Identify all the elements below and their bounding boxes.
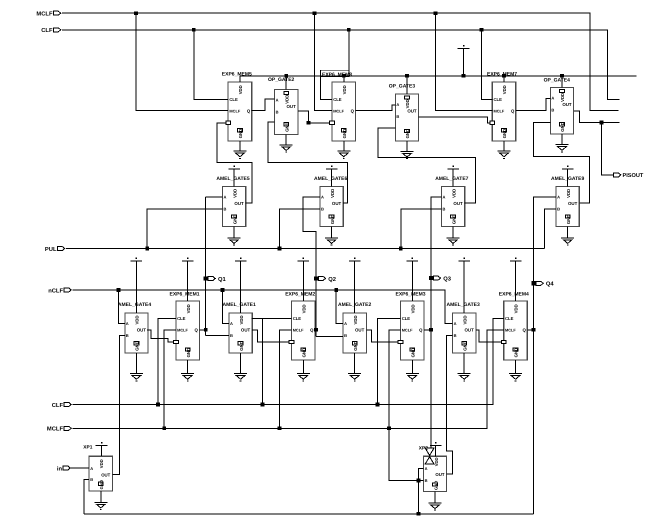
svg-text:A: A xyxy=(443,195,446,200)
svg-text:GND: GND xyxy=(342,129,347,139)
wire MEM7.Q to OP_GATE4.A xyxy=(516,99,550,111)
svg-text:MCLF: MCLF xyxy=(47,426,64,433)
flip-flop U18 EXP6_MEM4 xyxy=(499,291,529,380)
svg-text:VDD: VDD xyxy=(135,315,140,324)
svg-text:VDD: VDD xyxy=(342,85,347,94)
wire in to XP1.A xyxy=(70,467,89,469)
svg-text:MCLF: MCLF xyxy=(494,108,505,113)
svg-text:VDD: VDD xyxy=(99,459,104,468)
vdd supply of EXP6_MEM1 xyxy=(182,258,194,301)
svg-text:B: B xyxy=(224,207,227,212)
gate U7 AMEL_GATE5 xyxy=(216,176,249,245)
wire CLF top rail xyxy=(62,30,619,100)
svg-text:VDD: VDD xyxy=(284,95,289,104)
svg-text:GND: GND xyxy=(99,480,104,489)
vdd stem MEM8 xyxy=(342,74,346,82)
svg-text:B: B xyxy=(276,110,279,115)
vdd stem MEM7 xyxy=(502,74,506,82)
svg-text:CLE: CLE xyxy=(333,97,342,102)
svg-text:XP1: XP1 xyxy=(83,444,92,450)
svg-text:PISOUT: PISOUT xyxy=(623,173,644,179)
vdd tap symbol on rail xyxy=(458,45,470,78)
svg-text:MCLF: MCLF xyxy=(36,11,53,18)
svg-text:VDD: VDD xyxy=(451,189,456,198)
flip-flop U12 EXP6_MEM1 xyxy=(170,291,200,380)
vdd supply of EXP6_MEM3 xyxy=(406,258,418,301)
vdd supply of AMEL_GATE6 xyxy=(326,165,338,186)
svg-text:CLE: CLE xyxy=(177,316,186,321)
svg-text:VDD: VDD xyxy=(330,189,335,198)
wire CLF to MEM3.CLE xyxy=(376,319,401,407)
svg-text:B: B xyxy=(344,333,347,338)
svg-text:AMEL_GATE5: AMEL_GATE5 xyxy=(216,176,249,182)
svg-text:B: B xyxy=(90,477,93,482)
svg-text:VDD: VDD xyxy=(353,315,358,324)
svg-text:B: B xyxy=(551,108,554,113)
wire MCLF to MEM5.MCLF xyxy=(134,11,228,110)
svg-text:EXP6_MEM3: EXP6_MEM3 xyxy=(396,291,426,297)
svg-text:MCLF: MCLF xyxy=(402,327,413,332)
svg-text:CLF: CLF xyxy=(41,27,53,34)
wire PUL rail xyxy=(66,248,545,250)
ground of XP2 xyxy=(429,492,442,511)
svg-text:GND: GND xyxy=(462,341,467,351)
svg-text:A: A xyxy=(321,195,324,200)
svg-text:GND: GND xyxy=(560,122,565,132)
svg-text:OUT: OUT xyxy=(332,201,342,206)
svg-text:OUT: OUT xyxy=(453,201,463,206)
wire CLF distribution rail y=75.8 xyxy=(240,75,637,77)
vdd supply of AMEL_GATE7 xyxy=(447,165,459,186)
wire feedback bottom rail xyxy=(84,513,533,515)
svg-text:A: A xyxy=(126,321,129,326)
wire AMEL_GATE3.OUT to MEM4.B xyxy=(476,330,502,342)
wire CLF drop to rail xyxy=(347,28,351,76)
svg-text:Q2: Q2 xyxy=(328,276,336,283)
vdd supply of AMEL_GATE3 xyxy=(458,258,470,313)
wire MEM5.Q to OP_GATE2.A xyxy=(252,99,275,111)
svg-text:EXP6_MEM1: EXP6_MEM1 xyxy=(170,291,200,297)
vdd stem OP_GATE2 xyxy=(284,74,288,89)
wire AMEL_GATE5.B to PUL xyxy=(145,209,222,251)
wire nCLF to AMEL_GATE1.A xyxy=(221,288,230,324)
vdd supply of AMEL_GATE4 xyxy=(131,258,143,313)
svg-text:A: A xyxy=(551,96,554,101)
svg-text:A: A xyxy=(344,321,347,326)
svg-text:OUT: OUT xyxy=(287,104,297,109)
wire MCLF to MEM7.MCLF xyxy=(434,11,493,110)
gate U17 AMEL_GATE3 xyxy=(447,302,480,381)
svg-text:B: B xyxy=(321,207,324,212)
svg-text:GND: GND xyxy=(284,122,289,132)
svg-text:GND: GND xyxy=(135,341,140,351)
svg-text:VDD: VDD xyxy=(301,304,306,313)
output port Q3 xyxy=(429,276,452,283)
input port in xyxy=(57,465,70,472)
svg-text:VDD: VDD xyxy=(239,315,244,324)
wire CLF bottom rail xyxy=(73,319,504,405)
gate U6 OP_GATE4 xyxy=(544,77,574,152)
svg-text:B: B xyxy=(396,114,399,119)
input port CLF xyxy=(41,27,60,34)
svg-text:A: A xyxy=(90,466,93,471)
gate U19 XP1 xyxy=(83,444,112,491)
flip-flop U3 EXP6_MEM8 xyxy=(321,70,356,158)
svg-text:OUT: OUT xyxy=(241,328,251,333)
svg-text:GND: GND xyxy=(330,215,335,225)
wire AMEL_GATE1.OUT to MEM2.B xyxy=(252,330,289,342)
svg-text:EXP6_MEM2: EXP6_MEM2 xyxy=(285,291,315,297)
svg-text:AMEL_GATE6: AMEL_GATE6 xyxy=(314,176,347,182)
svg-text:A: A xyxy=(557,195,560,200)
vdd stem OP_GATE4 xyxy=(560,74,564,88)
svg-text:GND: GND xyxy=(186,348,191,358)
svg-text:GND: GND xyxy=(301,348,306,358)
svg-text:OUT: OUT xyxy=(137,328,147,333)
wire nCLF rail xyxy=(73,290,453,324)
svg-text:B: B xyxy=(557,207,560,212)
svg-text:B: B xyxy=(230,333,233,338)
vdd stem OP_GATE3 xyxy=(405,74,409,94)
wire XP1.OUT to AMEL_GATE4.B xyxy=(112,336,125,475)
svg-text:VDD: VDD xyxy=(232,189,237,198)
input port nCLF xyxy=(48,287,71,294)
svg-text:OUT: OUT xyxy=(568,201,578,206)
svg-text:VDD: VDD xyxy=(410,304,415,313)
wire nCLF to AMEL_GATE4.A xyxy=(117,288,125,324)
input port MCLF xyxy=(36,11,60,18)
svg-text:GND: GND xyxy=(451,215,456,225)
svg-text:VDD: VDD xyxy=(502,85,507,94)
flip-flop U5 EXP6_MEM7 xyxy=(487,72,517,159)
wire CLF to MEM2.CLE xyxy=(252,319,292,407)
svg-text:OUT: OUT xyxy=(355,328,365,333)
wire AMEL_GATE4.OUT to MEM1.B xyxy=(147,330,174,342)
svg-text:B: B xyxy=(425,478,428,483)
svg-text:VDD: VDD xyxy=(405,99,410,108)
flip-flop U1 EXP6_MEM5 xyxy=(222,72,252,159)
svg-text:EXP6_MEM5: EXP6_MEM5 xyxy=(222,72,252,78)
svg-text:MCLF: MCLF xyxy=(333,108,344,113)
svg-text:AMEL_GATE4: AMEL_GATE4 xyxy=(118,302,151,308)
wire nCLF to AMEL_GATE2.A xyxy=(334,288,343,324)
input port PUL xyxy=(45,247,65,253)
vdd supply of AMEL_GATE1 xyxy=(235,258,247,313)
vdd supply of AMEL_GATE9 xyxy=(562,165,574,186)
svg-text:CLE: CLE xyxy=(402,316,411,321)
svg-text:GND: GND xyxy=(410,348,415,358)
svg-text:Q1: Q1 xyxy=(218,276,227,283)
wire MCLF to MEM1.MCLF xyxy=(162,330,176,430)
svg-text:CLE: CLE xyxy=(293,316,302,321)
svg-text:AMEL_GATE1: AMEL_GATE1 xyxy=(223,302,256,308)
svg-text:AMEL_GATE3: AMEL_GATE3 xyxy=(447,302,480,308)
wire AMEL_GATE2.OUT to MEM3.B xyxy=(366,330,398,342)
svg-text:GND: GND xyxy=(514,348,519,358)
svg-text:MCLF: MCLF xyxy=(505,327,516,332)
svg-text:B: B xyxy=(454,333,457,338)
gate U13 AMEL_GATE1 xyxy=(223,302,256,381)
svg-text:GND: GND xyxy=(566,215,571,225)
svg-text:nCLF: nCLF xyxy=(48,287,63,294)
gate U20 XP2 with antenna diodes xyxy=(419,445,447,491)
vdd supply of AMEL_GATE2 xyxy=(349,258,361,313)
wire OP_GATE4.OUT to right stub and PISOUT xyxy=(574,111,620,175)
flip-flop U16 EXP6_MEM3 xyxy=(396,291,426,380)
vdd supply of EXP6_MEM4 xyxy=(510,258,522,301)
svg-text:GND: GND xyxy=(239,341,244,351)
svg-text:VDD: VDD xyxy=(566,189,571,198)
gate U15 AMEL_GATE2 xyxy=(338,302,371,381)
svg-text:B: B xyxy=(126,333,129,338)
output port Q4 xyxy=(532,281,555,288)
wire rail to MEM8.CLE xyxy=(321,76,332,100)
svg-text:A: A xyxy=(396,102,399,107)
svg-text:CLE: CLE xyxy=(229,97,238,102)
svg-text:EXP6_MEM4: EXP6_MEM4 xyxy=(499,291,529,297)
wire OP_GATE2.OUT to MEM8.B xyxy=(298,111,330,125)
gate U8 AMEL_GATE6 xyxy=(314,176,347,245)
wire AMEL_GATE7.B to PUL xyxy=(399,209,442,251)
svg-text:OP_GATE2: OP_GATE2 xyxy=(268,77,295,83)
vdd supply of XP1 xyxy=(96,442,108,456)
wire MCLF to MEM3.MCLF and XP2.B xyxy=(387,330,424,481)
svg-text:CLE: CLE xyxy=(505,316,514,321)
vdd supply of AMEL_GATE5 xyxy=(228,165,240,186)
gate U2 OP_GATE2 xyxy=(268,77,298,152)
output port Q2 xyxy=(314,276,336,283)
wire CLF to MEM7.CLE xyxy=(480,28,493,100)
gate U9 AMEL_GATE7 xyxy=(435,176,468,245)
svg-text:OUT: OUT xyxy=(234,201,244,206)
svg-text:OUT: OUT xyxy=(465,328,475,333)
svg-text:Q4: Q4 xyxy=(546,281,555,288)
wire MCLF bottom rail xyxy=(73,330,504,429)
svg-text:GND: GND xyxy=(232,215,237,225)
wire MCLF top rail xyxy=(62,13,619,110)
svg-text:GND: GND xyxy=(433,481,438,490)
svg-text:CLE: CLE xyxy=(494,97,503,102)
svg-text:OUT: OUT xyxy=(435,472,444,477)
output port PISOUT xyxy=(614,173,644,179)
svg-text:VDD: VDD xyxy=(560,93,565,102)
svg-text:GND: GND xyxy=(502,129,507,139)
svg-text:GND: GND xyxy=(238,129,243,139)
svg-text:MCLF: MCLF xyxy=(229,108,240,113)
net Q2 vertical xyxy=(314,249,343,337)
svg-text:VDD: VDD xyxy=(514,304,519,313)
wire AMEL_GATE9.B to PUL end xyxy=(545,209,557,249)
svg-text:MCLF: MCLF xyxy=(177,327,188,332)
gate U4 OP_GATE3 xyxy=(389,83,419,158)
svg-text:A: A xyxy=(425,466,428,471)
gate U10 AMEL_GATE9 xyxy=(551,176,584,245)
vdd stem MEM5 xyxy=(239,76,241,82)
wire AMEL_GATE6.A jog xyxy=(303,197,320,249)
svg-text:in: in xyxy=(57,465,63,472)
svg-text:A: A xyxy=(224,195,227,200)
svg-text:GND: GND xyxy=(405,129,410,139)
svg-text:VDD: VDD xyxy=(186,304,191,313)
svg-text:CLF: CLF xyxy=(52,402,64,409)
input port MCLF (bottom) xyxy=(47,426,71,433)
ground of XP1 xyxy=(94,491,107,510)
svg-text:OP_GATE4: OP_GATE4 xyxy=(544,77,571,83)
wire OP_GATE4.B to AMEL_GATE9 output xyxy=(533,123,589,204)
svg-text:A: A xyxy=(276,98,279,103)
wire MEM8.Q to OP_GATE3.A xyxy=(356,105,396,111)
net Q3 vertical xyxy=(424,197,442,448)
wire CLF to MEM5.CLE xyxy=(192,28,228,100)
svg-text:EXP6_MEM7: EXP6_MEM7 xyxy=(487,72,517,78)
net Q4 vertical xyxy=(527,197,556,514)
svg-text:OP_GATE3: OP_GATE3 xyxy=(389,83,416,89)
svg-text:OUT: OUT xyxy=(407,109,417,114)
wire CLF to MEM1.CLE xyxy=(156,319,176,407)
svg-text:GND: GND xyxy=(353,341,358,351)
wire OP_GATE3.OUT to MEM7.B xyxy=(419,117,490,123)
svg-text:A: A xyxy=(454,321,457,326)
svg-text:OUT: OUT xyxy=(101,472,110,477)
svg-text:MCLF: MCLF xyxy=(293,327,304,332)
input port CLF (bottom) xyxy=(52,402,71,409)
wire XP1.B to feedback rail xyxy=(84,480,89,514)
svg-text:AMEL_GATE7: AMEL_GATE7 xyxy=(435,176,468,182)
vdd supply of EXP6_MEM2 xyxy=(297,258,309,301)
net Q1 vertical xyxy=(199,197,229,336)
svg-text:B: B xyxy=(443,207,446,212)
svg-text:PUL: PUL xyxy=(45,247,57,253)
flip-flop U14 EXP6_MEM2 xyxy=(285,291,315,380)
gate U11 AMEL_GATE4 xyxy=(118,302,151,381)
output port Q1 xyxy=(204,276,227,283)
svg-text:VDD: VDD xyxy=(434,457,439,466)
wire feedback rail to XP2.A xyxy=(417,468,424,515)
wire XP2.OUT to AMEL_GATE3.B xyxy=(446,336,452,475)
wire MCLF to MEM8.MCLF xyxy=(313,11,333,110)
svg-text:EXP6_MEM8: EXP6_MEM8 xyxy=(322,72,352,78)
wire MEM5.B to AMEL_GATE5 output xyxy=(217,123,252,203)
svg-text:OUT: OUT xyxy=(562,102,572,107)
svg-text:VDD: VDD xyxy=(238,85,243,94)
wire AMEL_GATE6.B to PUL xyxy=(278,209,320,251)
wire OP_GATE2.B to AMEL_GATE6 output xyxy=(268,122,348,203)
svg-text:A: A xyxy=(230,321,233,326)
svg-text:VDD: VDD xyxy=(462,315,467,324)
vdd supply of XP2 xyxy=(430,442,442,456)
wire MCLF to MEM2.MCLF xyxy=(278,330,292,430)
wire OP_GATE3.B to AMEL_GATE7 output xyxy=(378,128,476,203)
svg-text:Q3: Q3 xyxy=(443,276,452,283)
